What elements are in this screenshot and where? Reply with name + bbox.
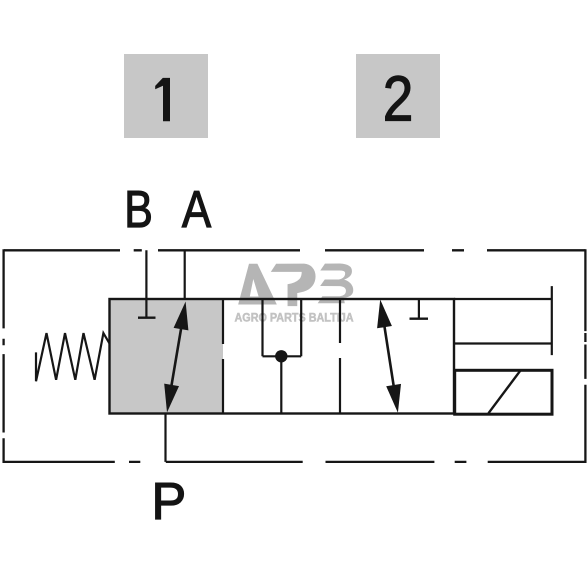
svg-text:B: B	[124, 181, 153, 239]
solenoid box	[455, 370, 552, 414]
svg-text:A: A	[182, 180, 212, 238]
port B line	[145, 250, 147, 317]
dashed enclosure left border	[2, 249, 4, 463]
junction dot	[275, 350, 287, 362]
transient position divider right (dashed)	[339, 299, 341, 414]
port A line	[184, 250, 186, 300]
port B blocked symbol bar	[138, 317, 156, 319]
position marker square 2	[356, 54, 440, 138]
transient position shuttle lines	[263, 299, 302, 414]
position 1 flow arrow A-P	[164, 302, 188, 413]
port P line	[164, 414, 166, 462]
position 2 blocked symbol bar	[410, 318, 429, 320]
valve body outline	[110, 299, 455, 414]
transient position divider left (dashed)	[222, 299, 224, 414]
position marker square 1	[124, 54, 208, 138]
watermark logo AP3	[239, 264, 353, 305]
solenoid linkage horizontal line	[454, 342, 552, 344]
dashed enclosure top border	[4, 249, 585, 251]
solenoid stem vertical line	[551, 286, 553, 355]
svg-text:AGRO PARTS BALTIJA: AGRO PARTS BALTIJA	[235, 311, 354, 325]
svg-text:2: 2	[383, 63, 414, 135]
dashed enclosure right border	[584, 249, 586, 463]
dashed enclosure bottom border	[4, 461, 585, 463]
valve position 1 gray fill	[110, 299, 224, 414]
position 2 blocked port line	[418, 299, 420, 318]
top edge extension to solenoid stem	[454, 298, 552, 300]
spring (left return spring)	[36, 333, 110, 381]
solenoid diagonal	[488, 371, 520, 414]
position 2 flow arrow	[377, 300, 401, 413]
svg-text:P: P	[151, 473, 186, 531]
